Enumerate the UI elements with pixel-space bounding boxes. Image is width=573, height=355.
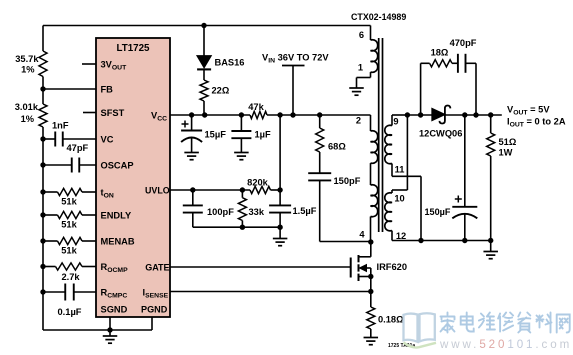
resistor R 47k bbox=[248, 102, 267, 119]
node VIN junction bbox=[290, 112, 295, 117]
svg-text:47k: 47k bbox=[248, 102, 264, 112]
svg-text:11: 11 bbox=[395, 165, 405, 175]
svg-text:4: 4 bbox=[359, 230, 365, 240]
node 1.5uF bottom junction bbox=[277, 225, 282, 230]
wire ISENSE line bbox=[170, 291, 371, 293]
capacitor C 1nF on VC line bbox=[43, 121, 96, 147]
watermark chinese text jiadian weixiu ziliao wang bbox=[441, 313, 570, 333]
pin label UVLO bbox=[145, 185, 170, 195]
capacitor C 1uF bbox=[231, 115, 271, 153]
node source body junction bbox=[368, 274, 373, 279]
pin label VCC bbox=[151, 110, 167, 122]
transformer T1 label CTX02-14989 bbox=[351, 12, 406, 22]
ground symbol below 0.18ohm bbox=[364, 338, 379, 345]
resistor R 51k on MENAB line bbox=[43, 237, 96, 255]
ground symbol secondary bbox=[483, 241, 498, 259]
svg-text:51k: 51k bbox=[61, 197, 77, 207]
svg-text:3.01k: 3.01k bbox=[15, 102, 39, 112]
svg-text:51k: 51k bbox=[61, 246, 77, 256]
pin label VC bbox=[101, 134, 114, 144]
transformer winding 9-11 secondary bbox=[385, 115, 405, 175]
svg-text:9: 9 bbox=[393, 117, 398, 127]
svg-text:IRF620: IRF620 bbox=[377, 262, 408, 272]
node VC junction bbox=[40, 136, 45, 141]
pin label SGND bbox=[101, 305, 128, 315]
resistor R 51ohm 1W bbox=[487, 115, 517, 241]
wire VIN node down to 820k bbox=[279, 115, 281, 190]
svg-text:SGND: SGND bbox=[101, 305, 128, 315]
svg-text:ENDLY: ENDLY bbox=[101, 210, 132, 220]
node SGND junction bbox=[107, 327, 112, 332]
node 820k right junction bbox=[277, 187, 282, 192]
capacitor C 150uF polarized bbox=[425, 115, 478, 241]
node 150uF top junction bbox=[462, 112, 467, 117]
wire left rail upper segment bbox=[42, 26, 44, 52]
node snubber 68ohm junction bbox=[317, 112, 322, 117]
svg-text:12: 12 bbox=[396, 231, 406, 241]
node ENDLY junction bbox=[40, 212, 45, 217]
resistor R 2.7k on ROCMP line bbox=[43, 263, 96, 282]
ground symbol transformer pin 1 bbox=[349, 88, 364, 95]
pin label ISENSE bbox=[143, 287, 169, 299]
pin label FB bbox=[101, 84, 114, 94]
node snubber left junction bbox=[418, 112, 423, 117]
svg-text:1nF: 1nF bbox=[52, 121, 69, 131]
node rail ground junction bbox=[488, 238, 493, 243]
watermark book logo bbox=[404, 313, 437, 347]
svg-text:UVLO: UVLO bbox=[145, 185, 170, 195]
svg-text:SFST: SFST bbox=[101, 108, 125, 118]
pin label ROCMP bbox=[101, 262, 129, 274]
snubber 18ohm 470pF across diode bbox=[421, 38, 477, 115]
resistor R 68ohm bbox=[316, 115, 347, 152]
resistor R 51k on tON line bbox=[43, 188, 96, 206]
node 33k junction on UVLO bbox=[240, 187, 245, 192]
svg-text:MENAB: MENAB bbox=[101, 236, 135, 246]
node rail pin11 junction bbox=[418, 238, 423, 243]
net label VIN 36V TO 72V with stub bbox=[262, 52, 329, 115]
svg-text:51Ω: 51Ω bbox=[499, 137, 517, 147]
wire PGND pin down bbox=[151, 317, 153, 330]
svg-text:FB: FB bbox=[101, 84, 114, 94]
node BAS16 junction on VCC bbox=[202, 112, 207, 117]
node 15uF junction bbox=[189, 112, 194, 117]
label 1725 TA01a bbox=[388, 343, 415, 349]
capacitor C 0.1uF on RCMPC line bbox=[43, 284, 96, 318]
wire pin 10 top to output node bbox=[392, 115, 407, 190]
pin label RCMPC bbox=[101, 287, 128, 299]
svg-text:1: 1 bbox=[358, 63, 363, 73]
node rail 150uF junction bbox=[462, 238, 467, 243]
capacitor C 15uF polarized bbox=[181, 115, 226, 153]
pin label 3VOUT bbox=[101, 59, 128, 71]
svg-text:22Ω: 22Ω bbox=[212, 86, 230, 96]
ground symbol below 15uF bbox=[184, 153, 199, 160]
resistor R 22ohm bbox=[200, 80, 230, 115]
resistor R 820k bbox=[247, 178, 270, 194]
svg-text:CTX02-14989: CTX02-14989 bbox=[351, 12, 406, 22]
wire rail 35.7k to FB node bbox=[42, 77, 44, 105]
svg-text:VC: VC bbox=[101, 134, 114, 144]
transformer core bbox=[379, 38, 383, 232]
node snubber right junction bbox=[473, 112, 478, 117]
node output pin9 junction bbox=[405, 112, 410, 117]
wire rail 3.01k down to bottom rail bbox=[42, 127, 44, 330]
ground symbol below SGND bbox=[103, 330, 118, 343]
wire secondary output line cathode side bbox=[444, 114, 502, 116]
svg-text:6: 6 bbox=[359, 30, 364, 40]
resistor R 35.7k 1% bbox=[15, 51, 47, 77]
resistor R 0.18ohm bbox=[367, 292, 404, 338]
svg-text:1µF: 1µF bbox=[255, 130, 272, 140]
node ISENSE junction bbox=[368, 289, 373, 294]
resistor R 51k on ENDLY line bbox=[43, 211, 96, 229]
capacitor C 100pF bbox=[183, 190, 234, 227]
pin stub 3VOUT bbox=[82, 63, 96, 65]
node tON junction bbox=[40, 189, 45, 194]
svg-text:1%: 1% bbox=[21, 65, 35, 75]
wire UVLO line from IC bbox=[170, 189, 280, 191]
wire GATE line bbox=[170, 266, 351, 268]
wire pin 1 to ground bbox=[357, 72, 371, 88]
svg-text:0.1µF: 0.1µF bbox=[58, 307, 82, 317]
node 33k bottom junction bbox=[240, 225, 245, 230]
svg-text:2: 2 bbox=[356, 116, 361, 126]
resistor R 3.01k 1% bbox=[15, 102, 47, 127]
wire top rail from left rail to transformer pin 6 bbox=[43, 25, 371, 27]
wire FB to IC bbox=[43, 88, 96, 90]
node UVLO divider top junction bbox=[277, 112, 282, 117]
pin label SFST bbox=[101, 108, 125, 118]
svg-text:47pF: 47pF bbox=[67, 143, 89, 153]
svg-text:0.18Ω: 0.18Ω bbox=[378, 315, 404, 325]
svg-text:1%: 1% bbox=[21, 114, 35, 124]
ground symbol below UVLO network bbox=[273, 227, 288, 246]
transformer winding 2-4 primary bbox=[356, 115, 378, 242]
pin label MENAB bbox=[101, 236, 135, 246]
wire VCC line from IC to transformer pin 2 bbox=[170, 114, 371, 116]
pin label PGND bbox=[141, 305, 168, 315]
svg-text:18Ω: 18Ω bbox=[431, 47, 449, 57]
svg-text:820k: 820k bbox=[247, 178, 269, 188]
resistor R 33k bbox=[238, 190, 264, 227]
svg-text:15µF: 15µF bbox=[205, 130, 227, 140]
svg-text:www.520101.com: www.520101.com bbox=[439, 338, 572, 351]
wire pin 11 to secondary ground rail bbox=[392, 164, 421, 241]
node 51ohm top junction bbox=[488, 112, 493, 117]
svg-text:1W: 1W bbox=[499, 148, 513, 158]
op-amp U1 LT1725 controller IC body bbox=[96, 38, 170, 317]
node FB junction bbox=[40, 86, 45, 91]
wire pin 9 top to output line bbox=[392, 114, 407, 116]
pin label GATE bbox=[145, 262, 169, 272]
svg-text:35.7k: 35.7k bbox=[15, 54, 39, 64]
node MENAB junction bbox=[40, 238, 45, 243]
svg-text:150µF: 150µF bbox=[425, 207, 451, 217]
pin stub SFST bbox=[83, 112, 96, 114]
wire bottom ground rail left bbox=[43, 329, 152, 331]
svg-text:2.7k: 2.7k bbox=[61, 272, 80, 282]
svg-text:33k: 33k bbox=[249, 207, 265, 217]
svg-text:BAS16: BAS16 bbox=[215, 58, 245, 68]
wire secondary output line anode side bbox=[407, 114, 432, 116]
svg-text:100pF: 100pF bbox=[207, 207, 234, 217]
pin label ENDLY bbox=[101, 210, 132, 220]
svg-text:OSCAP: OSCAP bbox=[101, 160, 134, 170]
svg-text:51k: 51k bbox=[61, 220, 77, 230]
transformer winding 6-1 primary bias bbox=[358, 26, 378, 73]
node drain junction pin 4 bbox=[368, 239, 373, 244]
capacitor C 150pF bbox=[308, 152, 360, 242]
diode D BAS16 bbox=[197, 26, 244, 81]
transformer winding 10-12 secondary bbox=[385, 190, 406, 241]
svg-text:PGND: PGND bbox=[141, 305, 168, 315]
node RCMPC junction bbox=[40, 289, 45, 294]
svg-text:10: 10 bbox=[394, 194, 404, 204]
svg-text:68Ω: 68Ω bbox=[328, 142, 346, 152]
transistor Q1 IRF620 MOSFET bbox=[351, 242, 407, 292]
capacitor C 47pF on OSCAP line bbox=[43, 143, 96, 173]
svg-text:470pF: 470pF bbox=[450, 38, 477, 48]
wire UVLO network bottom bbox=[193, 226, 280, 228]
net label VOUT 5V IOUT 0 to 2A bbox=[507, 105, 566, 129]
svg-text:12CWQ06: 12CWQ06 bbox=[419, 129, 462, 139]
watermark url www.520101.com bbox=[439, 338, 572, 351]
svg-text:150pF: 150pF bbox=[334, 176, 361, 186]
node junction BAS16 branch on top rail bbox=[201, 23, 206, 28]
node ROCMP junction bbox=[40, 264, 45, 269]
node OSCAP junction bbox=[40, 162, 45, 167]
svg-text:LT1725: LT1725 bbox=[116, 43, 150, 54]
capacitor C 1.5uF bbox=[269, 190, 317, 227]
wire SGND pin down bbox=[109, 317, 111, 330]
svg-text:GATE: GATE bbox=[145, 262, 169, 272]
diode D 12CWQ06 schottky bbox=[419, 106, 462, 139]
pin label tON bbox=[101, 187, 114, 199]
node 100pF junction on UVLO bbox=[190, 187, 195, 192]
node 1uF junction bbox=[239, 112, 244, 117]
wire secondary ground rail bbox=[392, 240, 491, 242]
svg-text:1.5µF: 1.5µF bbox=[293, 206, 317, 216]
wire snubber bottom to drain node bbox=[320, 241, 371, 243]
pin label OSCAP bbox=[101, 160, 134, 170]
ground symbol below 1uF bbox=[234, 153, 249, 160]
